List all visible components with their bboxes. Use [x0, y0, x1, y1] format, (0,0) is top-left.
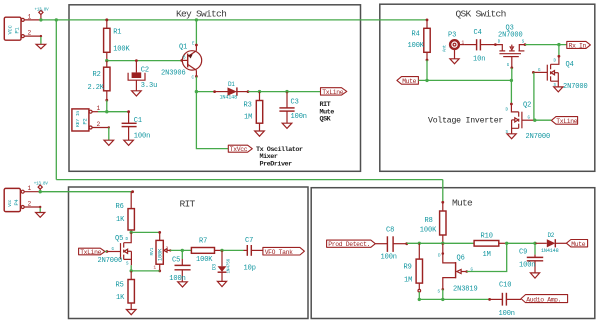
wire emitter drop — [195, 20, 197, 45]
wire R4 to Mute node — [426, 60, 428, 80]
svg-text:VFO Tank: VFO Tank — [265, 249, 293, 256]
pin 2 of P1 — [21, 30, 42, 38]
svg-text:R3: R3 — [244, 101, 252, 109]
ground (R3) — [255, 131, 265, 136]
svg-text:QSK Switch: QSK Switch — [456, 8, 506, 19]
net label TxLine (RIT) — [79, 248, 105, 256]
svg-text:Q2: Q2 — [523, 102, 531, 110]
svg-text:2: 2 — [28, 201, 32, 208]
svg-text:KEY In: KEY In — [75, 111, 81, 127]
svg-text:R1: R1 — [113, 29, 121, 37]
svg-text:R7: R7 — [199, 238, 207, 246]
wire wiper to R7 — [170, 249, 191, 251]
resistor R1 — [104, 20, 131, 61]
ground (Q2 source) — [507, 134, 516, 139]
frame RIT — [69, 187, 309, 319]
wire R7 to C7 — [222, 249, 244, 251]
svg-text:100K: 100K — [420, 226, 437, 234]
node junction x=56 — [55, 18, 58, 21]
svg-text:C2: C2 — [141, 66, 149, 74]
svg-text:Q4: Q4 — [566, 61, 574, 69]
capacitor C3 100n — [279, 92, 307, 124]
net label VFO Tank — [263, 247, 305, 255]
wire D1 to TxLine flag — [248, 91, 320, 93]
ground (Q4 source) — [554, 87, 563, 92]
node C9 junction — [533, 242, 536, 245]
transistor Q2 2N7000 (mirrored) — [506, 102, 551, 141]
node Q1 emitter tap — [195, 18, 198, 21]
svg-text:TxLine: TxLine — [80, 249, 101, 256]
svg-text:QSK: QSK — [320, 116, 332, 124]
pin 1 of P4 — [21, 185, 40, 193]
capacitor C5 100n — [169, 250, 190, 283]
node R6/RV1/Q5 junction — [130, 231, 133, 234]
svg-text:Rx In: Rx In — [569, 42, 587, 49]
svg-text:1: 1 — [28, 13, 32, 20]
resistor R8 — [420, 201, 446, 243]
svg-text:2.2K: 2.2K — [88, 84, 105, 92]
connector P3 Ant — [444, 32, 465, 52]
resistor R6 — [116, 190, 135, 232]
svg-text:1N4756: 1N4756 — [227, 258, 232, 273]
frame Key Switch — [69, 5, 361, 172]
svg-text:R5: R5 — [116, 282, 124, 290]
ground (P4 pin2) — [36, 208, 45, 217]
svg-text:Voltage Inverter: Voltage Inverter — [428, 116, 503, 126]
svg-text:D1: D1 — [228, 81, 235, 88]
svg-text:Vcc: Vcc — [9, 199, 13, 207]
svg-text:100K: 100K — [408, 42, 425, 50]
node R1 top junction — [105, 18, 108, 21]
svg-text:TxLine: TxLine — [556, 118, 577, 125]
wire to Q4 drain — [558, 45, 560, 57]
svg-text:C3: C3 — [291, 99, 299, 107]
node R8/Q6 junction — [441, 242, 444, 245]
svg-text:R6: R6 — [116, 203, 124, 211]
capacitor C4 10n — [464, 29, 495, 64]
wire collector down — [195, 76, 197, 91]
resistor R4 — [408, 19, 431, 62]
svg-text:100K: 100K — [196, 256, 213, 264]
wire Q2 gate to TxLine — [535, 119, 552, 121]
svg-text:1N4148: 1N4148 — [541, 248, 559, 254]
svg-text:Q1: Q1 — [179, 44, 187, 52]
transistor Q1 2N3906 — [161, 43, 202, 81]
svg-text:Mute: Mute — [402, 78, 416, 85]
svg-text:Prod Detect.: Prod Detect. — [328, 241, 370, 248]
ground (R5) — [126, 310, 136, 315]
net label TxLine (Key Switch) — [321, 88, 347, 96]
resistor R9 — [404, 243, 423, 292]
node R10/C9 junction — [505, 242, 508, 245]
svg-text:Q6: Q6 — [457, 254, 465, 262]
transistor Q5 2N7000 — [98, 232, 132, 266]
node Q6 source junction — [441, 298, 444, 301]
diode D3 1N4756 (zener) — [211, 250, 231, 281]
resistor R3 — [244, 92, 263, 131]
svg-text:1: 1 — [28, 185, 32, 192]
svg-text:P2: P2 — [82, 118, 88, 124]
node R3 junction — [258, 90, 261, 93]
wire P2 pin1 to C1 — [98, 111, 129, 113]
wire main +13.8V rail (P1 to R4) — [41, 19, 427, 21]
wire TxLine to Q5 gate — [105, 251, 107, 253]
net label Rx In — [567, 41, 591, 49]
wire collector to D1 — [196, 91, 214, 93]
ground (C1) — [124, 140, 134, 145]
pin 1 of P2 — [89, 105, 100, 113]
wire R2 to P2 pin1 — [106, 100, 108, 112]
wire Mute node — [418, 79, 511, 81]
svg-text:Mute: Mute — [571, 241, 585, 248]
svg-text:R8: R8 — [425, 217, 433, 225]
svg-text:1M: 1M — [483, 251, 491, 259]
svg-text:TxVcc: TxVcc — [230, 146, 248, 153]
capacitor C8 100n — [375, 226, 408, 261]
svg-text:R9: R9 — [404, 264, 412, 272]
wire vertical drop x=56 — [55, 20, 57, 180]
wire horizontal between sections y=180 — [56, 179, 443, 181]
svg-text:R10: R10 — [481, 233, 493, 241]
svg-text:1K: 1K — [116, 216, 125, 224]
svg-text:D2: D2 — [548, 232, 555, 239]
potentiometer RV1 100K — [149, 231, 172, 272]
node R9 junction — [418, 242, 421, 245]
annotation RIT/Mute/QSK — [320, 101, 335, 124]
node Q5/R5 junction — [130, 269, 133, 272]
svg-text:100K: 100K — [113, 46, 130, 54]
svg-text:10p: 10p — [244, 264, 256, 272]
svg-text:C1: C1 — [134, 117, 142, 125]
wire bottom rail — [419, 298, 489, 300]
wire P4 to R6 — [40, 191, 132, 193]
net label Prod Detect. — [327, 240, 376, 248]
pin 2 of P4 — [21, 201, 41, 209]
transistor Q3 2N7000 (horizontal) — [494, 24, 526, 69]
frame Mute — [311, 188, 595, 319]
node TxLine junction — [533, 119, 536, 122]
connector P4 Vcc — [4, 188, 20, 211]
svg-text:100n: 100n — [499, 310, 515, 318]
wire Q3 gate down — [511, 68, 513, 81]
wire RV1 bottom rail — [131, 270, 159, 272]
svg-text:1M: 1M — [404, 277, 412, 285]
node collector junction — [195, 90, 198, 93]
svg-text:RIT: RIT — [180, 198, 196, 209]
ground (C2) — [132, 91, 142, 96]
svg-text:100n: 100n — [519, 262, 535, 270]
pin 1 of P1 — [21, 13, 41, 21]
node C5 junction — [181, 249, 184, 252]
svg-text:2N3906: 2N3906 — [161, 70, 186, 78]
node P1 pin1 junction — [39, 18, 42, 21]
wire Q6 gate to R10 right — [467, 243, 507, 271]
wire Q3 source to Rx In — [525, 44, 567, 46]
ground (P2 pin2) — [104, 128, 114, 146]
wire Q6 source to bottom rail — [442, 289, 444, 299]
ground (C3) — [282, 123, 292, 128]
supply +13.8V (P1) — [35, 8, 50, 20]
svg-text:100n: 100n — [134, 133, 150, 141]
wire base of Q1 — [107, 60, 182, 62]
annotation Tx Oscillator/Mixer/PreDriver — [256, 146, 303, 169]
wire Mute node to Q2 drain — [510, 80, 512, 104]
node D3 junction — [220, 249, 223, 252]
diode D1 1N4148 — [213, 81, 249, 101]
svg-text:TxLine: TxLine — [322, 89, 343, 96]
net label Audio Amp. — [521, 295, 568, 304]
svg-text:Audio Amp.: Audio Amp. — [526, 296, 561, 303]
transistor Q6 2N3819 — [438, 243, 478, 294]
connector P2 KEY In — [72, 109, 89, 131]
capacitor C9 100n — [519, 243, 543, 273]
svg-text:Q5: Q5 — [115, 235, 123, 243]
net label TxVcc — [228, 145, 252, 153]
node R1/R2/base junction — [105, 59, 108, 62]
capacitor C2 (3.3u electrolytic) — [128, 59, 157, 91]
ground (P3) — [450, 49, 459, 64]
net label TxLine (QSK) — [551, 117, 577, 125]
capacitor C1 100n — [122, 110, 151, 140]
capacitor C7 10p — [244, 237, 263, 273]
svg-text:1M: 1M — [244, 113, 252, 121]
ground (C9) — [530, 273, 539, 278]
net label Mute (QSK) — [397, 77, 419, 85]
resistor R7 (horizontal) — [191, 238, 222, 264]
svg-text:2N7000: 2N7000 — [526, 133, 551, 141]
ground (P1 pin2) — [36, 37, 46, 49]
svg-text:D3: D3 — [211, 264, 217, 270]
wire Q5 source down — [130, 265, 132, 271]
pin 2 of P2 — [89, 121, 110, 129]
svg-text:+13.8V: +13.8V — [35, 8, 50, 12]
svg-text:1K: 1K — [116, 294, 125, 302]
wire Q4 gate down to TxLine node — [533, 72, 535, 120]
svg-text:R2: R2 — [93, 71, 101, 79]
svg-text:C4: C4 — [474, 29, 482, 37]
capacitor C10 100n — [488, 281, 521, 318]
svg-text:P4: P4 — [14, 199, 20, 205]
svg-text:PreDriver: PreDriver — [260, 161, 293, 169]
svg-text:Vcc: Vcc — [7, 25, 13, 34]
svg-text:+13.8V: +13.8V — [34, 182, 49, 186]
svg-text:C10: C10 — [499, 281, 511, 289]
wire R9 to bottom rail — [418, 292, 420, 299]
node gate/drain junction — [510, 79, 513, 82]
svg-text:3.3u: 3.3u — [141, 82, 157, 90]
svg-text:P1: P1 — [15, 27, 21, 33]
svg-text:RV1: RV1 — [149, 247, 155, 255]
svg-text:2N7000: 2N7000 — [98, 257, 123, 265]
node bottom rail left — [418, 298, 421, 301]
supply +13.8V (P4) — [34, 182, 49, 191]
svg-text:2: 2 — [28, 30, 32, 37]
svg-text:C7: C7 — [245, 237, 253, 245]
svg-text:10n: 10n — [473, 56, 485, 64]
wire R10 to D2 — [507, 242, 535, 244]
svg-text:2N3819: 2N3819 — [453, 286, 478, 294]
connector P1 — [4, 17, 21, 40]
node junction R2/P2/C1 — [105, 110, 108, 113]
wire collector to TxVcc — [196, 92, 228, 149]
svg-text:R4: R4 — [412, 30, 420, 38]
frame QSK Switch — [380, 4, 595, 171]
transistor Q4 2N7000 — [532, 55, 588, 91]
resistor R2 — [88, 61, 111, 102]
ground (C5) — [178, 282, 188, 287]
svg-text:100n: 100n — [291, 113, 307, 121]
svg-text:C9: C9 — [519, 249, 527, 257]
svg-text:2: 2 — [97, 121, 101, 128]
resistor R5 — [116, 271, 135, 310]
svg-text:C5: C5 — [172, 257, 180, 265]
diode D2 1N4148 — [535, 232, 566, 254]
svg-text:C8: C8 — [386, 226, 394, 234]
wire main mute rail — [407, 242, 474, 244]
resistor R10 (horizontal) — [474, 233, 507, 259]
svg-text:Mute: Mute — [452, 198, 473, 209]
svg-text:Key Switch: Key Switch — [176, 8, 226, 19]
node Rx In junction — [557, 43, 560, 46]
net label Mute (right) — [566, 240, 587, 248]
svg-text:P3: P3 — [448, 32, 456, 40]
svg-text:2N7000: 2N7000 — [563, 83, 588, 91]
ground (D3) — [217, 281, 226, 286]
svg-text:100K: 100K — [158, 248, 164, 261]
wire drop into Mute to R8 — [442, 180, 444, 203]
svg-text:Ant: Ant — [444, 44, 448, 52]
svg-text:100n: 100n — [381, 253, 397, 261]
svg-text:2N7000: 2N7000 — [498, 31, 523, 39]
wire R6 to RV1 top — [131, 231, 159, 233]
node P4 pin1 junction — [39, 190, 42, 193]
node C3 junction — [285, 90, 288, 93]
node R4/Mute junction — [425, 79, 428, 82]
svg-text:1N4148: 1N4148 — [220, 95, 238, 101]
